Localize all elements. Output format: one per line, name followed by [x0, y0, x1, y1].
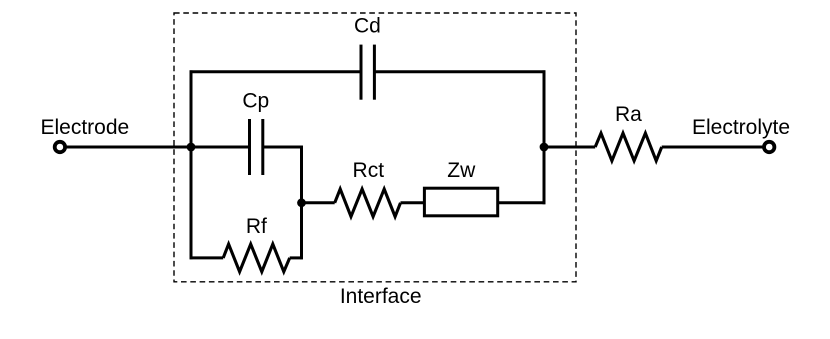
wire Rct to Zw [401, 201, 425, 204]
svg-text:Electrode: Electrode [41, 116, 130, 139]
node left junction [187, 143, 196, 152]
resistor Rf [223, 244, 290, 272]
svg-text:Ra: Ra [615, 103, 642, 126]
resistor Rct [335, 189, 401, 217]
capacitor Cp [250, 119, 263, 175]
wire Rf branch bottom left [190, 256, 224, 259]
wire Rf to middle vertical [290, 256, 303, 259]
svg-text:Rf: Rf [246, 215, 267, 238]
wire electrode to Cp [67, 146, 250, 149]
wire right vertical [543, 70, 546, 204]
svg-text:Cd: Cd [354, 15, 381, 38]
wire top branch left of Cd [190, 70, 361, 73]
wire top branch right of Cd [374, 70, 545, 73]
capacitor Cd [361, 45, 374, 100]
wire left vertical riser [190, 70, 193, 259]
wire junction to Ra [544, 146, 595, 149]
wire Ra to electrolyte [662, 146, 763, 149]
wire Cp to middle vertical [263, 146, 303, 149]
terminal Electrode [55, 142, 65, 152]
wire junction to Rct [302, 201, 335, 204]
wire middle vertical [300, 146, 303, 260]
node right junction [540, 143, 549, 152]
svg-text:Zw: Zw [447, 159, 476, 182]
terminal Electrolyte [764, 142, 774, 152]
svg-text:Cp: Cp [242, 90, 269, 113]
svg-text:Rct: Rct [353, 159, 385, 182]
node middle junction [297, 198, 306, 207]
resistor Ra [595, 133, 662, 161]
svg-text:Electrolyte: Electrolyte [692, 116, 790, 139]
wire Zw to right vertical [498, 201, 546, 204]
interface dashed box [174, 13, 576, 282]
svg-text:Interface: Interface [340, 285, 422, 308]
impedance Zw box [424, 188, 497, 216]
